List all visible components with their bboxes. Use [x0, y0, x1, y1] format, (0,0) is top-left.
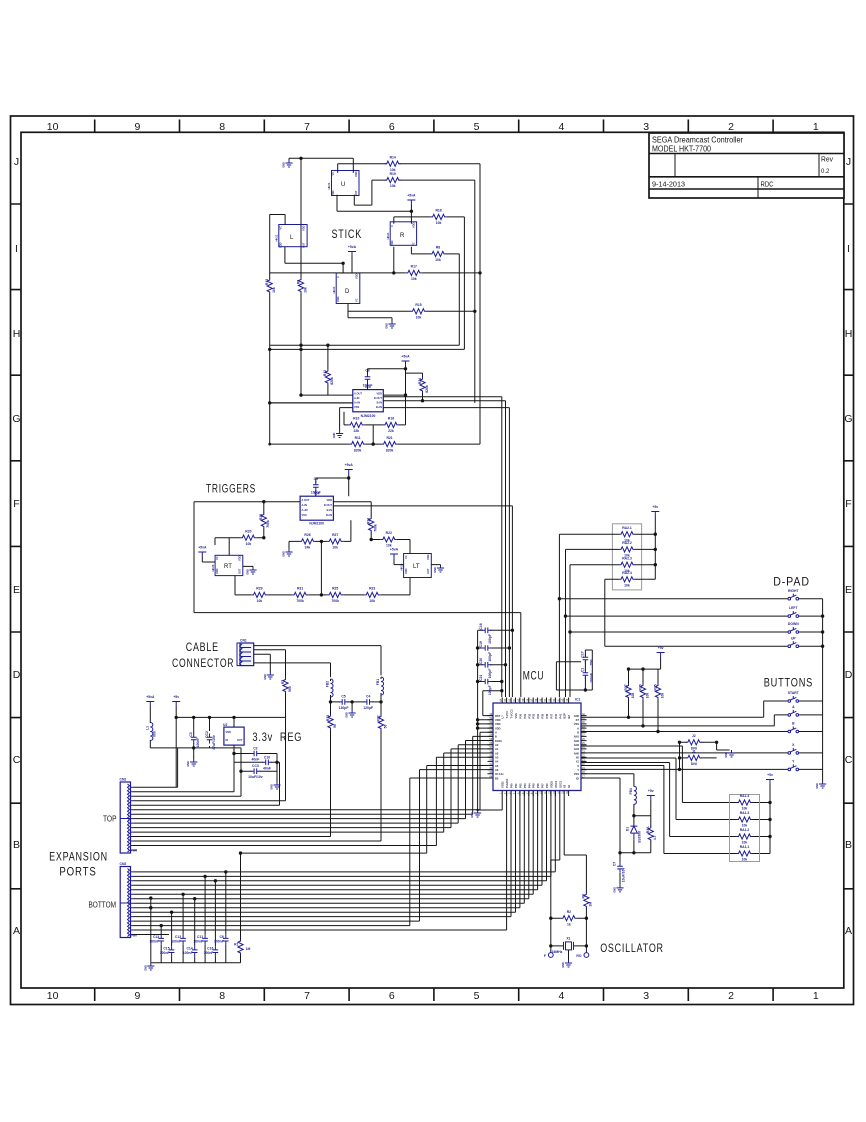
- svg-text:P04: P04: [527, 783, 531, 788]
- svg-text:100pF: 100pF: [488, 685, 492, 695]
- svg-text:RA2.4: RA2.4: [622, 571, 632, 575]
- svg-text:VDD: VDD: [336, 296, 340, 302]
- svg-text:VSS: VSS: [574, 722, 579, 726]
- svg-text:C9: C9: [314, 477, 318, 481]
- svg-text:B+IN: B+IN: [326, 513, 332, 517]
- svg-text:X0: X0: [576, 756, 580, 760]
- svg-text:R7: R7: [281, 680, 285, 684]
- svg-text:RST: RST: [495, 714, 501, 718]
- svg-text:P40: P40: [554, 713, 558, 718]
- svg-text:CN1: CN1: [240, 639, 247, 643]
- svg-text:F: F: [845, 498, 851, 510]
- svg-text:P10: P10: [545, 783, 549, 788]
- svg-text:10k: 10k: [390, 184, 396, 188]
- svg-text:HK26: HK26: [211, 564, 215, 571]
- svg-text:3: 3: [509, 792, 512, 794]
- svg-text:P33: P33: [532, 713, 536, 718]
- svg-text:40nF: 40nF: [263, 766, 271, 770]
- svg-text:CN2: CN2: [120, 778, 127, 782]
- svg-text:C13: C13: [153, 935, 159, 939]
- svg-text:10k: 10k: [436, 221, 442, 225]
- svg-text:10k: 10k: [742, 858, 748, 862]
- svg-text:VC: VC: [412, 242, 416, 246]
- svg-text:100nF: 100nF: [196, 738, 200, 748]
- svg-text:MODEL HKT-7700: MODEL HKT-7700: [652, 145, 711, 154]
- svg-text:R: R: [400, 233, 405, 239]
- svg-text:A0: A0: [495, 743, 499, 747]
- svg-text:5: 5: [474, 990, 480, 1002]
- svg-text:X2: X2: [576, 776, 580, 780]
- svg-text:C19: C19: [479, 641, 483, 647]
- svg-text:100pF: 100pF: [488, 652, 492, 662]
- svg-text:A: A: [13, 925, 20, 937]
- svg-text:100pF: 100pF: [488, 669, 492, 679]
- svg-text:VDD: VDD: [238, 555, 242, 561]
- svg-text:RA2.3: RA2.3: [622, 556, 632, 560]
- svg-text:R14: R14: [390, 155, 396, 159]
- svg-text:BZ: BZ: [567, 715, 571, 719]
- svg-text:10k: 10k: [624, 584, 630, 588]
- svg-text:P02: P02: [518, 783, 522, 788]
- svg-text:4.7: 4.7: [653, 835, 657, 840]
- svg-text:R29: R29: [256, 587, 262, 591]
- svg-text:R26: R26: [304, 533, 310, 537]
- svg-text:B: B: [495, 735, 497, 739]
- svg-text:R19: R19: [390, 172, 396, 176]
- svg-text:OSCILLATOR: OSCILLATOR: [600, 943, 664, 955]
- svg-text:4: 4: [558, 990, 564, 1002]
- svg-text:A: A: [845, 925, 852, 937]
- svg-text:16MHz: 16MHz: [552, 950, 563, 954]
- svg-text:HK23: HK23: [332, 286, 336, 293]
- svg-text:R20: R20: [245, 529, 251, 533]
- svg-text:P01: P01: [514, 783, 518, 788]
- svg-text:RIGHT: RIGHT: [788, 589, 799, 593]
- svg-text:R3: R3: [582, 894, 586, 898]
- svg-text:C11: C11: [197, 935, 203, 939]
- svg-text:VC: VC: [404, 555, 408, 559]
- svg-text:R1: R1: [234, 942, 238, 946]
- svg-text:P06: P06: [536, 783, 540, 788]
- svg-text:G: G: [12, 413, 20, 425]
- svg-text:UP: UP: [791, 636, 796, 640]
- svg-text:560: 560: [288, 686, 292, 692]
- svg-text:VC: VC: [355, 298, 359, 302]
- svg-text:C16: C16: [207, 947, 213, 951]
- svg-text:J: J: [14, 156, 19, 168]
- svg-text:CONNECTOR: CONNECTOR: [172, 658, 234, 670]
- svg-text:A-IN: A-IN: [302, 503, 307, 507]
- svg-text:DNI: DNI: [691, 762, 697, 766]
- svg-text:C6: C6: [219, 935, 223, 939]
- svg-text:R23: R23: [369, 587, 375, 591]
- svg-text:C7: C7: [613, 862, 617, 866]
- svg-text:X: X: [577, 764, 579, 768]
- svg-text:100nF: 100nF: [204, 951, 214, 955]
- svg-text:100nF: 100nF: [363, 384, 373, 388]
- svg-text:CC3: CC3: [252, 764, 259, 768]
- svg-text:A OUT: A OUT: [302, 498, 310, 502]
- svg-text:R18: R18: [435, 209, 441, 213]
- svg-text:10k: 10k: [272, 287, 276, 293]
- svg-text:J2: J2: [692, 734, 696, 738]
- svg-text:47uF/10v: 47uF/10v: [212, 735, 216, 750]
- svg-text:OUT: OUT: [238, 568, 242, 574]
- svg-text:P35: P35: [541, 713, 545, 718]
- svg-text:R32: R32: [376, 715, 380, 721]
- svg-text:BUTTONS: BUTTONS: [764, 678, 813, 690]
- svg-text:VDD: VDD: [327, 498, 333, 502]
- svg-text:700k: 700k: [331, 599, 339, 603]
- svg-text:R21: R21: [386, 436, 392, 440]
- svg-text:10k: 10k: [411, 277, 417, 281]
- svg-text:FB2: FB2: [326, 681, 330, 688]
- svg-text:C14: C14: [186, 947, 192, 951]
- svg-text:VDD: VDD: [404, 568, 408, 574]
- svg-text:TOP: TOP: [103, 815, 117, 824]
- svg-text:100nF: 100nF: [171, 940, 181, 944]
- svg-text:X1: X1: [566, 936, 570, 940]
- svg-text:VDD: VDD: [226, 730, 232, 734]
- svg-text:100nF: 100nF: [311, 491, 321, 495]
- svg-text:700k: 700k: [374, 524, 378, 532]
- svg-text:VDD: VDD: [279, 242, 283, 248]
- svg-text:R27: R27: [332, 533, 338, 537]
- svg-text:AN2: AN2: [574, 739, 580, 743]
- svg-text:IC1: IC1: [575, 698, 580, 702]
- svg-text:VDD: VDD: [426, 554, 430, 560]
- svg-text:A+IN: A+IN: [354, 401, 360, 405]
- svg-text:600: 600: [152, 731, 156, 737]
- svg-text:100nF: 100nF: [214, 940, 224, 944]
- svg-text:A: A: [577, 726, 579, 730]
- svg-text:R13: R13: [265, 279, 269, 285]
- svg-text:HK21: HK21: [327, 182, 331, 189]
- svg-text:VDD: VDD: [302, 225, 306, 231]
- svg-text:HK22: HK22: [275, 234, 279, 241]
- svg-text:8: 8: [219, 121, 225, 133]
- svg-text:VDD: VDD: [495, 726, 501, 730]
- svg-text:I: I: [847, 243, 850, 255]
- svg-text:P34: P34: [536, 713, 540, 718]
- svg-text:NJM2100: NJM2100: [361, 414, 376, 418]
- svg-text:A5: A5: [495, 764, 499, 768]
- svg-text:700k: 700k: [266, 520, 270, 528]
- svg-text:VSS: VSS: [302, 513, 307, 517]
- svg-text:EXPANSION: EXPANSION: [49, 852, 108, 864]
- svg-text:VSS: VSS: [354, 405, 359, 409]
- svg-text:VC: VC: [279, 226, 283, 230]
- svg-text:A4: A4: [495, 760, 499, 764]
- svg-text:3.3v REG: 3.3v REG: [252, 732, 302, 744]
- svg-text:Rev: Rev: [821, 157, 833, 164]
- svg-text:3: 3: [643, 121, 649, 133]
- svg-text:10uF/16v: 10uF/16v: [622, 868, 626, 883]
- svg-text:6: 6: [389, 990, 395, 1002]
- svg-text:10k: 10k: [742, 807, 748, 811]
- svg-text:J: J: [846, 156, 851, 168]
- svg-text:1M: 1M: [589, 902, 593, 907]
- svg-text:R25: R25: [332, 587, 338, 591]
- svg-text:RA2.2: RA2.2: [622, 541, 632, 545]
- svg-text:24k: 24k: [305, 546, 311, 550]
- svg-text:P36: P36: [545, 713, 549, 718]
- svg-text:MCU: MCU: [523, 670, 545, 682]
- svg-text:R11: R11: [355, 436, 361, 440]
- svg-text:T-VCC: T-VCC: [505, 711, 509, 719]
- svg-text:LT: LT: [413, 564, 420, 570]
- svg-text:820k: 820k: [354, 448, 362, 452]
- svg-text:VDD: VDD: [377, 392, 383, 396]
- svg-text:C20: C20: [479, 658, 483, 664]
- svg-text:100nF: 100nF: [160, 951, 170, 955]
- svg-text:C10: C10: [264, 755, 270, 759]
- svg-text:H: H: [13, 328, 21, 340]
- svg-text:VSS: VSS: [514, 713, 518, 718]
- svg-text:U2: U2: [223, 723, 227, 727]
- svg-text:AN5: AN5: [574, 751, 580, 755]
- svg-text:P07: P07: [541, 783, 545, 788]
- svg-text:P37: P37: [549, 713, 553, 718]
- svg-text:10k: 10k: [435, 258, 441, 262]
- svg-text:C15: C15: [163, 947, 169, 951]
- svg-text:RDC: RDC: [761, 182, 774, 189]
- svg-text:4: 4: [558, 121, 564, 133]
- svg-text:5: 5: [474, 121, 480, 133]
- svg-text:CC2: CC2: [205, 731, 209, 738]
- svg-text:1: 1: [813, 990, 819, 1002]
- svg-text:RA1.2: RA1.2: [740, 828, 750, 832]
- svg-text:10k: 10k: [645, 693, 649, 699]
- svg-text:NJM2100: NJM2100: [309, 522, 324, 526]
- svg-text:P03: P03: [523, 783, 527, 788]
- svg-text:RA2.1: RA2.1: [622, 526, 632, 530]
- svg-text:OSC2: OSC2: [558, 780, 562, 788]
- svg-text:8: 8: [219, 990, 225, 1002]
- svg-text:C2: C2: [253, 747, 257, 751]
- svg-text:P31: P31: [523, 713, 527, 718]
- svg-text:100nF: 100nF: [149, 940, 159, 944]
- svg-text:A+IN: A+IN: [302, 508, 308, 512]
- svg-text:3: 3: [643, 990, 649, 1002]
- svg-text:10k: 10k: [386, 544, 392, 548]
- svg-text:10: 10: [47, 121, 59, 133]
- svg-text:R37: R37: [624, 684, 628, 690]
- svg-text:10k: 10k: [660, 693, 664, 699]
- svg-text:PORTS: PORTS: [59, 867, 96, 879]
- svg-text:1M: 1M: [246, 947, 251, 951]
- svg-text:A2: A2: [495, 751, 499, 755]
- svg-text:P32: P32: [527, 713, 531, 718]
- svg-text:RO: RO: [576, 954, 581, 958]
- svg-text:R10: R10: [353, 417, 359, 421]
- svg-text:START: START: [788, 691, 800, 695]
- svg-text:A-IN: A-IN: [354, 396, 359, 400]
- svg-text:C17: C17: [581, 651, 585, 657]
- svg-text:9: 9: [134, 121, 140, 133]
- svg-text:OUT: OUT: [426, 568, 430, 574]
- svg-text:X4: X4: [567, 784, 571, 788]
- svg-text:100pF: 100pF: [488, 634, 492, 644]
- svg-text:A6: A6: [495, 768, 499, 772]
- svg-text:AN1: AN1: [574, 735, 580, 739]
- svg-text:CN3: CN3: [120, 862, 127, 866]
- svg-text:L?: L?: [501, 715, 505, 719]
- svg-text:100nF: 100nF: [183, 951, 193, 955]
- svg-text:R17: R17: [411, 265, 417, 269]
- svg-text:C21: C21: [479, 674, 483, 680]
- svg-text:BZP: BZP: [563, 713, 567, 718]
- svg-text:U: U: [341, 182, 345, 188]
- svg-text:R16: R16: [388, 417, 394, 421]
- svg-text:P05: P05: [532, 783, 536, 788]
- svg-text:100nF: 100nF: [193, 940, 203, 944]
- svg-text:I: I: [15, 243, 18, 255]
- svg-text:SS3366: SS3366: [637, 831, 641, 843]
- svg-text:820k: 820k: [425, 385, 429, 393]
- svg-text:R3A: R3A: [646, 826, 650, 833]
- svg-text:B0: B0: [495, 776, 499, 780]
- svg-text:C: C: [845, 754, 853, 766]
- svg-text:A OUT: A OUT: [354, 392, 362, 396]
- svg-text:VDD: VDD: [354, 171, 358, 177]
- svg-text:OUT: OUT: [237, 738, 243, 742]
- svg-text:40nF: 40nF: [251, 758, 259, 762]
- svg-text:RA1.1: RA1.1: [740, 845, 750, 849]
- svg-text:CABLE: CABLE: [186, 642, 219, 654]
- svg-text:B-IN: B-IN: [327, 508, 332, 512]
- svg-text:10k: 10k: [742, 841, 748, 845]
- svg-text:P-DATA: P-DATA: [505, 778, 509, 788]
- svg-text:B-IN: B-IN: [377, 401, 382, 405]
- svg-text:IN: IN: [226, 738, 229, 742]
- svg-text:820k: 820k: [330, 377, 334, 385]
- svg-text:D: D: [13, 669, 21, 681]
- svg-text:10k: 10k: [742, 824, 748, 828]
- svg-text:J1: J1: [692, 750, 696, 754]
- svg-text:C12: C12: [175, 935, 181, 939]
- svg-text:VSS: VSS: [574, 772, 579, 776]
- svg-text:0.2: 0.2: [821, 169, 830, 175]
- svg-text:7: 7: [304, 990, 310, 1002]
- svg-text:E: E: [845, 584, 852, 596]
- svg-text:2: 2: [728, 990, 734, 1002]
- svg-text:120pF: 120pF: [339, 706, 349, 710]
- svg-text:R22: R22: [386, 531, 392, 535]
- svg-text:FB1: FB1: [376, 679, 380, 686]
- svg-text:E: E: [13, 584, 20, 596]
- svg-text:VDD: VDD: [331, 190, 335, 196]
- svg-text:1k: 1k: [567, 922, 571, 926]
- svg-text:AN0: AN0: [574, 714, 580, 718]
- svg-text:7: 7: [304, 121, 310, 133]
- svg-text:R31: R31: [297, 587, 303, 591]
- svg-text:T-VCC2: T-VCC2: [510, 709, 514, 719]
- svg-text:820k: 820k: [386, 448, 394, 452]
- svg-text:VSS2: VSS2: [501, 781, 505, 788]
- svg-text:LEFT: LEFT: [789, 606, 798, 610]
- svg-text:C5: C5: [341, 695, 345, 699]
- svg-text:10uF/10v: 10uF/10v: [248, 775, 263, 779]
- svg-text:700k: 700k: [296, 599, 304, 603]
- svg-text:R24: R24: [367, 518, 371, 524]
- svg-text:D-PAD: D-PAD: [773, 577, 810, 589]
- svg-text:120pF: 120pF: [363, 706, 373, 710]
- svg-text:C: C: [336, 276, 340, 278]
- svg-text:VDD: VDD: [495, 718, 501, 722]
- svg-text:OUT: OUT: [302, 242, 306, 248]
- svg-text:C1: C1: [581, 668, 585, 672]
- svg-text:IO 3.3v: IO 3.3v: [495, 772, 504, 776]
- svg-text:DOWN: DOWN: [788, 622, 799, 626]
- svg-text:P41: P41: [558, 713, 562, 718]
- svg-text:R9: R9: [296, 280, 300, 284]
- svg-text:STICK: STICK: [332, 229, 363, 241]
- svg-text:L1: L1: [145, 726, 149, 730]
- svg-text:9-14-2013: 9-14-2013: [652, 182, 685, 189]
- svg-text:D: D: [845, 669, 853, 681]
- svg-text:D1: D1: [625, 827, 629, 831]
- svg-text:RT: RT: [224, 564, 232, 570]
- svg-text:10k: 10k: [246, 542, 252, 546]
- svg-text:R28: R28: [259, 514, 263, 520]
- svg-text:B OUT: B OUT: [374, 396, 382, 400]
- svg-text:2: 2: [728, 121, 734, 133]
- svg-text:D: D: [345, 289, 350, 295]
- svg-text:P00: P00: [510, 783, 514, 788]
- svg-text:VDD: VDD: [412, 222, 416, 228]
- svg-text:56: 56: [383, 725, 387, 729]
- svg-text:SEGA Dreamcast Controller: SEGA Dreamcast Controller: [652, 136, 743, 145]
- svg-text:10k: 10k: [369, 599, 375, 603]
- svg-text:X1: X1: [576, 760, 580, 764]
- svg-text:TRIGGERS: TRIGGERS: [206, 484, 256, 496]
- svg-text:10k: 10k: [332, 546, 338, 550]
- svg-text:6: 6: [389, 121, 395, 133]
- svg-text:VDD: VDD: [390, 240, 394, 246]
- svg-text:OSC1: OSC1: [554, 780, 558, 788]
- svg-text:R2: R2: [567, 910, 571, 914]
- svg-text:9: 9: [134, 990, 140, 1002]
- svg-text:10k: 10k: [416, 316, 422, 320]
- svg-text:HK24: HK24: [386, 232, 390, 239]
- svg-text:10k: 10k: [257, 599, 263, 603]
- svg-text:R36: R36: [638, 684, 642, 690]
- svg-text:C18: C18: [479, 623, 483, 629]
- svg-text:B+IN: B+IN: [376, 405, 382, 409]
- svg-text:22k: 22k: [353, 429, 359, 433]
- svg-text:R12: R12: [323, 370, 327, 376]
- svg-text:F: F: [544, 954, 546, 958]
- svg-text:C3: C3: [189, 732, 193, 736]
- svg-text:1: 1: [813, 121, 819, 133]
- svg-text:AN4: AN4: [574, 747, 580, 751]
- svg-text:R33: R33: [326, 715, 330, 721]
- svg-text:G: G: [844, 413, 852, 425]
- svg-text:Y: Y: [577, 768, 579, 772]
- svg-text:B OUT: B OUT: [324, 503, 332, 507]
- svg-text:X3: X3: [563, 784, 567, 788]
- svg-text:B: B: [845, 839, 852, 851]
- svg-text:10k: 10k: [631, 693, 635, 699]
- svg-text:R24: R24: [418, 378, 422, 384]
- svg-text:10k: 10k: [303, 287, 307, 293]
- svg-text:VDD: VDD: [495, 722, 501, 726]
- svg-text:B: B: [577, 731, 579, 735]
- svg-text:C: C: [390, 225, 394, 227]
- svg-text:DATA: DATA: [495, 739, 502, 743]
- svg-text:RA1.3: RA1.3: [740, 811, 750, 815]
